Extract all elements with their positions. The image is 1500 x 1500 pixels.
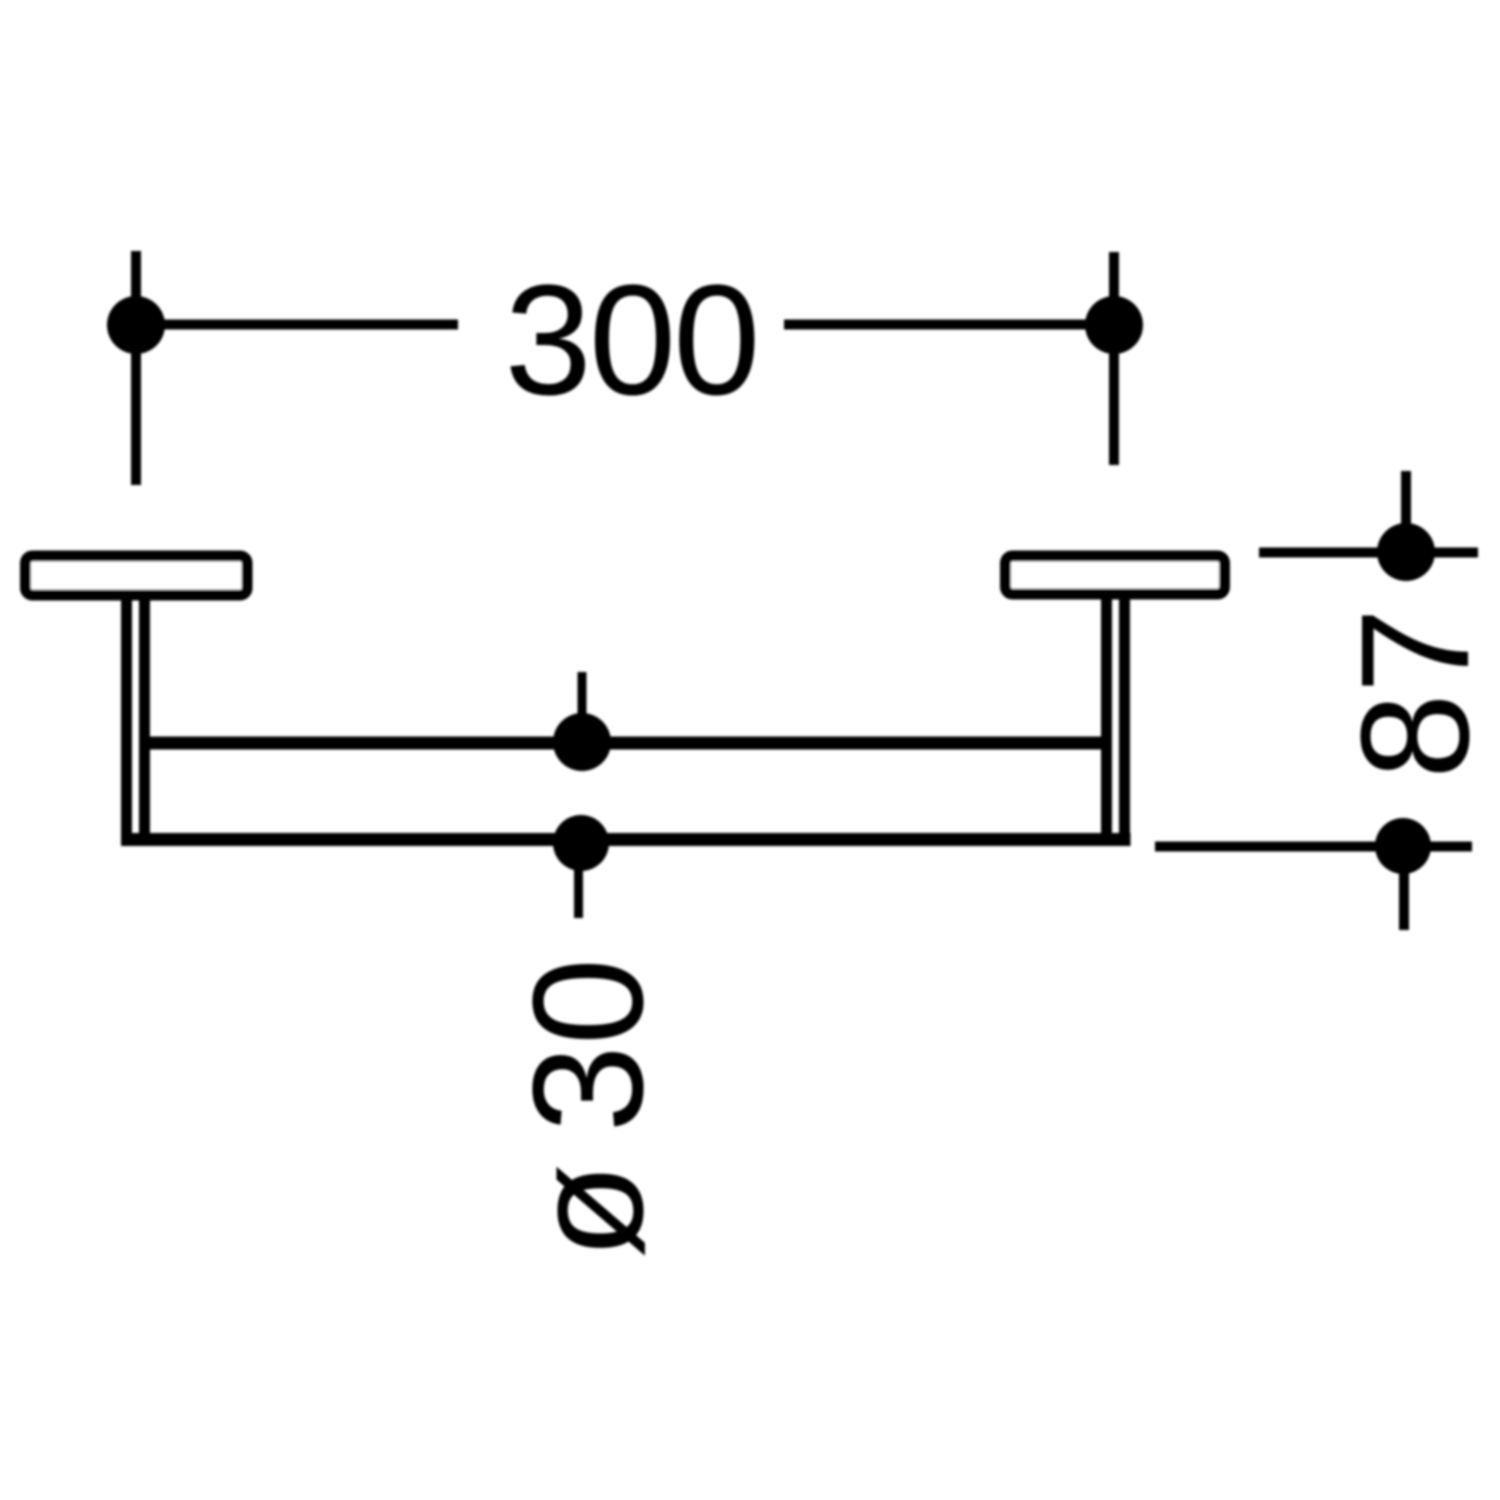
dimension d30: upper dot bbox=[553, 713, 611, 771]
dimension d30: upper tick bbox=[578, 672, 587, 742]
dimension 87: top extension tick bbox=[1401, 471, 1411, 530]
right post outer line bbox=[1119, 597, 1130, 840]
left wall plate bbox=[26, 556, 248, 595]
dimension 300: right extension line bbox=[1109, 252, 1119, 465]
dimension 300: left dimension line segment bbox=[136, 320, 458, 330]
dimension 300: left dot bbox=[107, 296, 165, 354]
dimension 87: bottom dimension line bbox=[1155, 842, 1472, 852]
dimension d30: lower dot bbox=[553, 815, 609, 871]
dimension 300: left extension line bbox=[131, 251, 141, 485]
bar top line bbox=[145, 737, 1106, 750]
svg-text:87: 87 bbox=[1329, 608, 1500, 779]
dimension 300: right dimension line segment bbox=[784, 320, 1114, 330]
svg-text:300: 300 bbox=[505, 253, 758, 428]
dimension d30: lower tick bbox=[574, 843, 583, 918]
left post outer line bbox=[121, 598, 132, 840]
left post inner line bbox=[139, 598, 150, 840]
svg-text:ø 30: ø 30 bbox=[501, 958, 676, 1259]
right post inner line bbox=[1101, 597, 1112, 840]
dimension 87: top dot bbox=[1377, 523, 1435, 581]
right wall plate bbox=[1006, 556, 1225, 594]
dimension 87: bottom dot bbox=[1375, 818, 1431, 874]
dimension 87: top dimension line bbox=[1259, 548, 1478, 558]
dimension 300: right dot bbox=[1085, 296, 1143, 354]
bar bottom line bbox=[121, 833, 1131, 846]
dimension 87: bottom extension tick bbox=[1399, 872, 1409, 930]
